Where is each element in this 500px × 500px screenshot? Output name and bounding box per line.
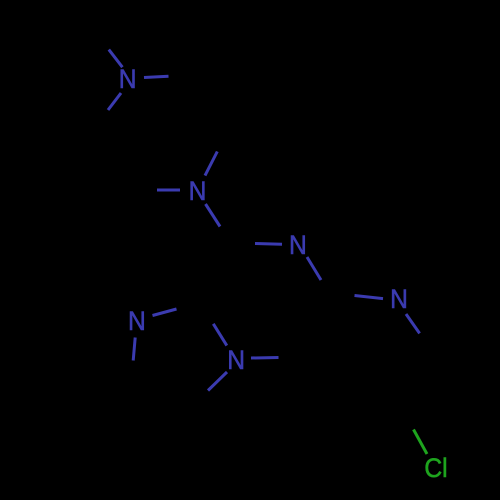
svg-text:N: N [390, 285, 408, 314]
svg-text:N: N [128, 307, 146, 336]
svg-text:N: N [189, 177, 207, 206]
svg-text:N: N [289, 231, 307, 260]
svg-text:Cl: Cl [424, 454, 447, 483]
svg-text:N: N [119, 65, 137, 94]
svg-text:N: N [227, 346, 245, 375]
